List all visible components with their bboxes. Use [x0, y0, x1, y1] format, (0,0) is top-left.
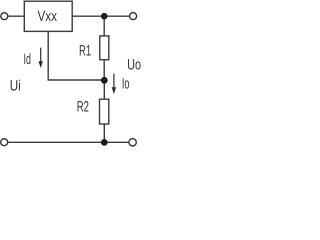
svg-text:Id: Id — [24, 51, 31, 68]
svg-text:R1: R1 — [79, 42, 91, 59]
resistor R1 — [100, 36, 109, 60]
resistor R2 — [100, 99, 109, 124]
node junction middle — [101, 77, 108, 84]
node junction top — [101, 13, 108, 20]
node junction bottom — [101, 139, 108, 146]
terminal top left — [1, 13, 8, 20]
voltage source box Vxx — [24, 1, 72, 31]
wire top rail left — [8, 15, 25, 17]
wire bottom rail — [8, 141, 130, 143]
wire top rail right — [72, 15, 130, 17]
current arrow Id — [39, 48, 43, 68]
current arrow Io — [112, 74, 116, 95]
wire R1 branch vertical — [103, 16, 105, 80]
svg-text:Vxx: Vxx — [38, 8, 58, 25]
svg-text:R2: R2 — [77, 99, 89, 116]
svg-text:Ui: Ui — [10, 78, 21, 95]
terminal bottom left — [1, 139, 8, 146]
wire Id branch from Vxx bottom to middle node — [48, 31, 104, 80]
svg-text:Uo: Uo — [127, 56, 141, 73]
terminal top right — [130, 13, 137, 20]
terminal bottom right — [129, 139, 136, 146]
wire R2 branch vertical — [103, 80, 105, 142]
svg-text:Io: Io — [122, 76, 130, 93]
